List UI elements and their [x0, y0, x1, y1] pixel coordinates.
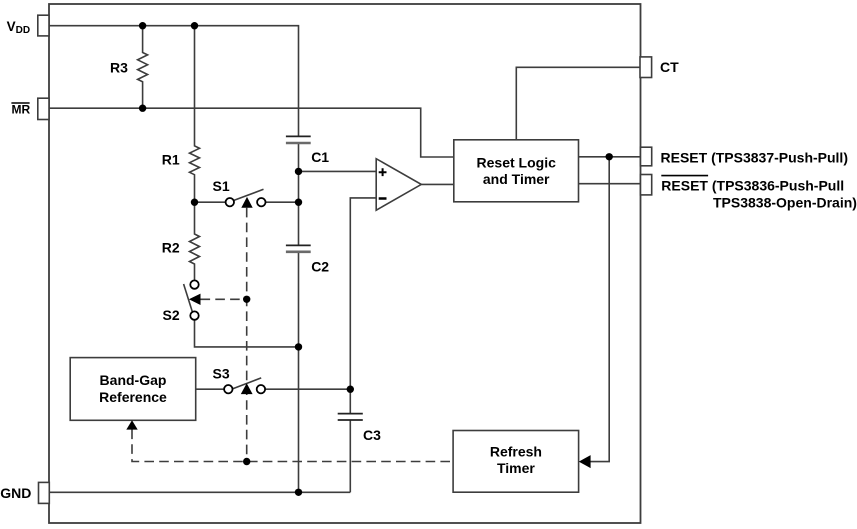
svg-text:RESET (TPS3837-Push-Pull): RESET (TPS3837-Push-Pull) [661, 149, 848, 165]
svg-text:CT: CT [660, 59, 679, 75]
svg-text:MR: MR [12, 103, 31, 117]
svg-text:S3: S3 [213, 366, 230, 382]
svg-text:Timer: Timer [497, 460, 535, 476]
svg-text:Reset Logic: Reset Logic [477, 154, 557, 170]
svg-text:Reference: Reference [99, 389, 167, 405]
svg-text:C3: C3 [363, 427, 381, 443]
svg-text:GND: GND [0, 485, 31, 501]
svg-text:R2: R2 [162, 239, 180, 255]
svg-text:and Timer: and Timer [483, 171, 550, 187]
svg-text:C2: C2 [311, 258, 329, 274]
svg-text:R3: R3 [110, 60, 128, 76]
svg-text:Band-Gap: Band-Gap [100, 372, 167, 388]
svg-text:Refresh: Refresh [490, 443, 542, 459]
svg-text:RESET (TPS3836-Push-Pull: RESET (TPS3836-Push-Pull [661, 177, 844, 193]
svg-text:VDD: VDD [7, 19, 30, 36]
svg-text:S2: S2 [163, 307, 180, 323]
svg-text:S1: S1 [213, 178, 230, 194]
svg-text:TPS3838-Open-Drain): TPS3838-Open-Drain) [713, 195, 857, 211]
svg-text:C1: C1 [311, 149, 329, 165]
svg-text:R1: R1 [162, 151, 180, 167]
